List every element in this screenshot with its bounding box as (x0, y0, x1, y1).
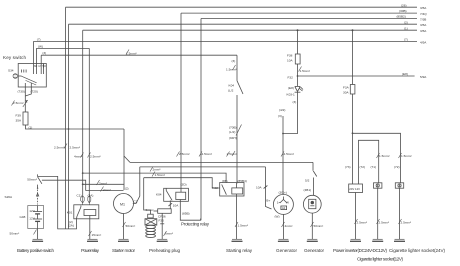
wire bus B3 (85B2) (201, 18, 417, 20)
svg-text:(2): (2) (125, 186, 129, 190)
svg-text:10A: 10A (173, 203, 179, 207)
svg-text:(L/2: (L/2 (228, 89, 234, 93)
wire bus B1 (26) (66, 6, 418, 8)
diode K03-1 (295, 87, 303, 93)
ground starting relay (232, 239, 243, 241)
wire vertical 4/2 to generator1 (282, 116, 284, 194)
svg-text:G0: G0 (282, 206, 286, 210)
svg-text:1.5mm²: 1.5mm² (300, 69, 311, 73)
svg-text:G08: G08 (20, 215, 26, 219)
switch on line3 x237 (237, 55, 243, 183)
svg-text:(72): (72) (394, 165, 400, 169)
connector arrow on key wire (23, 100, 28, 107)
cigarette lighter socket 24V (395, 183, 403, 239)
svg-text:2.5mm²: 2.5mm² (401, 221, 412, 225)
svg-text:(1): (1) (404, 26, 408, 30)
svg-text:W: W (286, 201, 289, 205)
wire F38 to line E8 and diode (297, 64, 299, 86)
svg-text:2.5mm²: 2.5mm² (70, 146, 81, 150)
svg-text:10A: 10A (287, 59, 293, 63)
wire power relay branch to starter (83, 183, 124, 185)
svg-text:S26A: S26A (5, 195, 14, 199)
power relay K01 (74, 205, 99, 221)
wire vertical x124 to starter motor (123, 129, 125, 156)
svg-text:3/5A: 3/5A (420, 23, 427, 27)
svg-text:1.5mm²: 1.5mm² (126, 52, 137, 56)
wire battery switch to starter terminal 2 (42, 180, 124, 190)
svg-text:30 17 50: 30 17 50 (34, 64, 46, 68)
wire line (3) (41, 54, 237, 56)
svg-text:(30B): (30B) (399, 9, 407, 13)
wire diode to generator jog (283, 92, 298, 133)
ground battery (32, 239, 43, 241)
svg-text:Starting relay: Starting relay (226, 248, 253, 253)
node junction B5-F38 (297, 29, 299, 31)
svg-text:50mm²: 50mm² (10, 232, 20, 236)
svg-text:(3A): (3A) (88, 194, 94, 198)
node junction B5-F31 (352, 29, 354, 31)
starter motor M1 (114, 194, 134, 240)
ground socket 24V (394, 239, 405, 241)
svg-text:7/4Q: 7/4Q (420, 12, 427, 16)
svg-text:10A: 10A (256, 185, 262, 189)
svg-text:(1): (1) (29, 126, 33, 130)
node junction 283,133.5 (282, 133, 284, 135)
wire bus B4 (2) (69, 23, 418, 25)
svg-text:F32: F32 (288, 75, 294, 79)
svg-text:1=: 1= (277, 201, 281, 205)
svg-text:50mm²: 50mm² (314, 224, 324, 228)
svg-text:3/5A: 3/5A (420, 6, 427, 10)
svg-text:(E8): (E8) (288, 86, 294, 90)
wire line3 y178 to starting relay box (144, 178, 220, 188)
fuse F39 (23, 112, 28, 125)
node junction at 82.7,184.3 (82, 183, 84, 185)
svg-text:1.5mm²: 1.5mm² (227, 152, 238, 156)
svg-text:2mm²: 2mm² (103, 188, 111, 192)
svg-text:(4/2): (4/2) (279, 108, 285, 112)
svg-text:30A: 30A (343, 90, 349, 94)
wire line1 y167 starter C2 to generator B+ (140, 166, 266, 168)
svg-text:Power inverter(DC24V-DC12V): Power inverter(DC24V-DC12V) (333, 248, 387, 253)
wire bus B2 (30B) (181, 12, 417, 14)
svg-text:(72): (72) (360, 165, 366, 169)
wire line (W) (36, 47, 89, 49)
connector C1 above power relay (81, 196, 85, 205)
svg-text:1.5mm²: 1.5mm² (226, 67, 237, 71)
svg-text:5/9A: 5/9A (420, 75, 427, 79)
svg-text:B+: B+ (266, 198, 270, 202)
wire B5 to fuse F31 (352, 30, 354, 84)
svg-text:M1: M1 (120, 203, 125, 207)
svg-text:1.5mm²: 1.5mm² (238, 224, 249, 228)
svg-text:(30(+): (30(+) (279, 190, 287, 194)
wire bus B5 (1) (83, 29, 417, 31)
starting relay K02 (220, 183, 244, 197)
svg-text:(26): (26) (401, 3, 407, 7)
svg-text:K03-1: K03-1 (287, 93, 296, 97)
ground preheating (157, 239, 168, 241)
wire F31 to inverter and 24V socket (352, 94, 354, 184)
svg-text:2.5mm²: 2.5mm² (54, 146, 65, 150)
fuse CF06 F35 (158, 209, 172, 214)
svg-text:(730): (730) (18, 90, 25, 94)
svg-text:1.5mm²: 1.5mm² (155, 173, 166, 177)
wire diagonal branch to line0 (124, 156, 130, 162)
wire vertical from B5 to power relay contact C1 (82, 30, 84, 196)
svg-text:50mm²: 50mm² (27, 178, 37, 182)
svg-text:F3A: F3A (343, 85, 350, 89)
svg-text:K02: K02 (213, 186, 219, 190)
svg-text:2.5mm²: 2.5mm² (90, 155, 101, 159)
key symbol S34 (13, 74, 22, 79)
svg-text:3/5A: 3/5A (420, 29, 427, 33)
svg-text:(3): (3) (232, 59, 236, 63)
svg-text:(85B2): (85B2) (397, 15, 406, 19)
svg-text:C1): C1) (77, 194, 82, 198)
power inverter U1 (349, 184, 363, 239)
svg-text:12V: 12V (29, 209, 35, 213)
svg-text:2mm²: 2mm² (153, 167, 161, 171)
svg-text:2.5mm²: 2.5mm² (379, 221, 390, 225)
svg-text:2mm²: 2mm² (99, 182, 107, 186)
svg-text:K04: K04 (156, 192, 162, 196)
svg-text:(3): (3) (278, 114, 282, 118)
svg-text:24V 12V: 24V 12V (349, 187, 360, 191)
wire starting relay coil to ground (236, 194, 238, 239)
svg-text:(7): (7) (404, 38, 408, 42)
svg-text:6mm²: 6mm² (165, 232, 173, 236)
svg-text:F35: F35 (159, 219, 165, 223)
svg-text:(2A): (2A) (68, 224, 74, 228)
wire line (E8) (298, 75, 415, 77)
wire line1 to generator B+ with 10A fuse (266, 167, 272, 209)
svg-text:Battery positive switch: Battery positive switch (17, 248, 54, 253)
wire from F39 to starter feed line (1) (26, 125, 125, 129)
wire vertical from B4 to power relay (68, 24, 70, 229)
wire power relay coil to ground (89, 216, 91, 240)
wire vertical from B1 to power relay (65, 7, 67, 229)
generator G03 (303, 195, 321, 239)
svg-text:(L/2): (L/2) (229, 130, 235, 134)
svg-text:15mm²: 15mm² (92, 233, 102, 237)
svg-text:(W): (W) (38, 44, 43, 48)
svg-text:35A: 35A (16, 119, 22, 123)
wire starter C2 riser to line1 (133, 167, 140, 204)
ground socket 12V (372, 239, 383, 241)
wire vertical from line W to power relay coil 3A (88, 48, 90, 196)
svg-text:Cigarette lighter socket(12V): Cigarette lighter socket(12V) (357, 257, 403, 262)
svg-text:6mm²: 6mm² (146, 208, 154, 212)
svg-text:1.5mm²: 1.5mm² (379, 154, 390, 158)
svg-text:C2: C2 (134, 199, 138, 203)
svg-text:K01: K01 (67, 210, 73, 214)
svg-text:(86): (86) (222, 179, 228, 183)
connector 3A above power relay (88, 196, 91, 205)
ground starter motor (118, 239, 129, 241)
preheating plug R01 (145, 214, 157, 237)
svg-text:F38: F38 (287, 54, 293, 58)
node junction at 82.7,173 (82, 172, 84, 174)
fuse arrow 10A (169, 203, 173, 206)
svg-text:(E8): (E8) (402, 72, 408, 76)
svg-text:(71): (71) (371, 165, 377, 169)
svg-text:(85B4): (85B4) (238, 179, 247, 183)
svg-text:(3): (3) (42, 51, 46, 55)
ground generator1 (278, 239, 289, 241)
protecting relay K04 (164, 188, 189, 201)
svg-text:Generator: Generator (304, 248, 324, 253)
wire line0 y162 to generator2 (130, 161, 313, 163)
svg-text:2.5mm²: 2.5mm² (357, 221, 368, 225)
svg-text:4mm²: 4mm² (74, 155, 82, 159)
svg-text:Cigarette lighter socket(24V): Cigarette lighter socket(24V) (389, 248, 445, 253)
svg-text:(720): (720) (31, 90, 38, 94)
battery G08 (28, 206, 44, 240)
svg-text:(7): (7) (37, 38, 41, 42)
svg-text:F39: F39 (16, 114, 22, 118)
wire protecting relay coil return to B3 (180, 200, 200, 221)
svg-text:12V: 12V (29, 217, 35, 221)
svg-text:Generator: Generator (276, 248, 297, 253)
svg-text:2.5mm²: 2.5mm² (202, 152, 213, 156)
key switch K (18, 42, 46, 88)
ground inverter (350, 239, 361, 241)
svg-text:4/5A: 4/5A (420, 40, 427, 44)
svg-text:Starter motor: Starter motor (112, 248, 135, 253)
svg-text:(85B): (85B) (182, 211, 190, 215)
svg-text:5/2: 5/2 (305, 178, 310, 182)
svg-text:(94H): (94H) (229, 136, 237, 140)
svg-text:1.5mm²: 1.5mm² (401, 154, 412, 158)
svg-text:(2): (2) (404, 20, 408, 24)
generator G02 (273, 194, 293, 239)
svg-text:2.5mm²: 2.5mm² (179, 152, 190, 156)
fuse F31 (350, 85, 355, 95)
ground power relay (87, 239, 98, 241)
wire fuse branch to ground (161, 213, 163, 239)
svg-text:4mm²: 4mm² (285, 224, 293, 228)
svg-text:Key switch: Key switch (3, 55, 26, 60)
ground generator2 (307, 239, 318, 241)
wire battery switch top to power relay bottom (38, 176, 77, 229)
wire line2 y173 power relay to starting relay contact (83, 173, 226, 182)
svg-text:2.5mm²: 2.5mm² (13, 101, 24, 105)
battery positive switch S26A (36, 174, 42, 204)
wire plug feed from line3 (144, 178, 151, 215)
svg-text:(3D): (3D) (181, 182, 187, 186)
fuse F38 (295, 54, 300, 64)
wire line0 to generator2 with switch (313, 162, 317, 195)
svg-text:S34: S34 (8, 69, 14, 73)
svg-text:(73): (73) (345, 165, 351, 169)
svg-text:Power relay: Power relay (81, 248, 100, 253)
wire vertical from B2 to protecting relay coil (180, 13, 182, 192)
svg-text:7/3B: 7/3B (420, 17, 426, 21)
wire fuse to preheating plug (154, 210, 158, 212)
wire key switch terminals 730/720 (24, 87, 26, 99)
wire inverter out to 12V socket (359, 140, 379, 184)
svg-text:50mm²: 50mm² (126, 224, 136, 228)
svg-text:Protecting relay: Protecting relay (181, 221, 210, 226)
svg-text:Preheating plug: Preheating plug (149, 248, 180, 253)
wire B5 to fuse F38 (297, 30, 299, 54)
svg-text:(4B1): (4B1) (304, 188, 312, 192)
svg-text:(W): (W) (275, 214, 280, 218)
svg-text:K04: K04 (229, 84, 235, 88)
wire protecting relay contact to fuse CF06 (169, 200, 171, 208)
cigarette lighter socket 12V (374, 183, 382, 239)
svg-text:2.5mm²: 2.5mm² (284, 152, 295, 156)
label arrows wire sizes (12, 50, 402, 237)
wire vertical from B3 to protecting relay coil return (200, 19, 202, 221)
svg-text:(3): (3) (293, 100, 297, 104)
wire line (7) (33, 41, 417, 43)
